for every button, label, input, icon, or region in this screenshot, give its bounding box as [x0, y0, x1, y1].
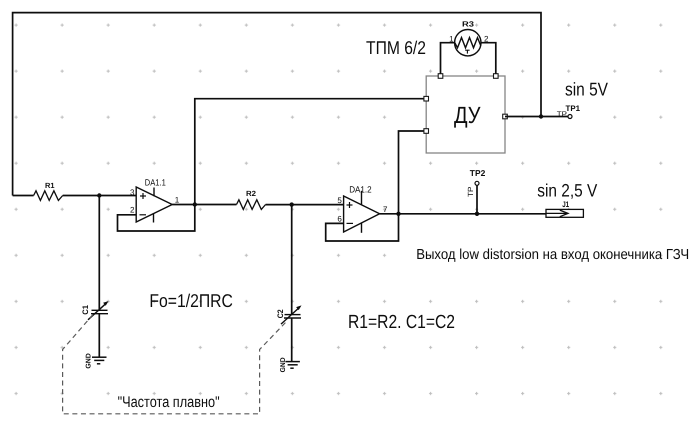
wire: DU output to TP1 [505, 116, 568, 118]
op-amp DA1.1 [136, 187, 172, 223]
junction node DA1.2 output [396, 212, 400, 216]
resistor R2 [237, 200, 266, 210]
ground GND at C2 [285, 362, 300, 369]
svg-text:sin 5V: sin 5V [565, 79, 609, 100]
wire: DA1.1 feedback loop to pin 2 [118, 205, 195, 232]
wire: C2 branch down [291, 205, 293, 315]
wire: R2 to DA1.2 pin 5 [266, 204, 344, 206]
svg-text:3: 3 [130, 188, 135, 197]
junction node DA1.1 output [193, 202, 197, 206]
junction node R2/C2 [290, 202, 294, 206]
junction node DU output / top loop [539, 114, 543, 118]
svg-text:7: 7 [383, 205, 388, 214]
test point TP1 [568, 115, 572, 119]
pin square DU top 2 [494, 74, 499, 79]
svg-text:DA1.2: DA1.2 [349, 184, 372, 194]
wire: R3 right lead [481, 43, 496, 74]
wire: DA1.2 output to J1 [380, 213, 546, 215]
block DU (differential amplifier) [426, 76, 505, 153]
wire: DA1.2 feedback loop to pin 6 [326, 214, 399, 241]
svg-text:DA1.1: DA1.1 [145, 177, 166, 187]
capacitor C2 (variable) [281, 305, 302, 324]
op-amp DA1.2 [344, 191, 380, 233]
resistor R1 [34, 191, 63, 201]
svg-text:ДУ: ДУ [454, 102, 481, 128]
wire: C1 branch down [98, 196, 100, 311]
connector J1 [546, 209, 583, 217]
wire: TP2 branch [476, 185, 478, 214]
svg-text:sin 2,5 V: sin 2,5 V [537, 181, 597, 201]
callout dashed box (frequency adjust group) [63, 315, 287, 414]
svg-text:C1: C1 [81, 304, 90, 314]
svg-text:TP1: TP1 [566, 104, 581, 113]
svg-text:1: 1 [175, 195, 180, 204]
svg-text:5: 5 [337, 196, 342, 205]
junction node R1/C1 [97, 193, 101, 197]
test point TP2 [475, 181, 479, 185]
svg-text:1: 1 [449, 35, 454, 44]
svg-text:6: 6 [337, 215, 342, 224]
wire: C1 to ground [98, 314, 100, 358]
svg-text:C2: C2 [276, 309, 285, 318]
junction node TP2 [475, 212, 479, 216]
svg-text:Выход low distorsion на вход о: Выход low distorsion на вход оконечника … [416, 247, 689, 263]
wire: DA1.1 output up to DU input 1 [195, 99, 426, 205]
svg-text:R1: R1 [45, 181, 55, 190]
svg-text:"Частота плавно": "Частота плавно" [118, 394, 220, 411]
svg-text:TP: TP [466, 187, 475, 198]
wire: R1 to DA1.1 pin 3 [63, 195, 137, 197]
svg-text:2: 2 [484, 35, 489, 44]
wire: outer loop from R1 left end up and across top down to DU output node [13, 13, 541, 196]
thermistor R3 [455, 30, 481, 56]
svg-text:TP2: TP2 [470, 168, 486, 178]
pin square DU left 2 [424, 129, 429, 134]
svg-text:Fo=1/2ПRC: Fo=1/2ПRC [149, 290, 233, 311]
wire: left stub to R1 [13, 195, 34, 197]
svg-text:GND: GND [85, 353, 92, 368]
pin square DU top 1 [438, 74, 443, 79]
svg-text:ТПМ 6/2: ТПМ 6/2 [366, 37, 426, 58]
ground GND at C1 [92, 357, 107, 364]
svg-text:2: 2 [130, 206, 135, 215]
svg-text:J1: J1 [562, 200, 569, 209]
wire: R3 left lead [441, 43, 455, 74]
wire: DU input 2 down to DA1.2 output node [399, 131, 427, 214]
capacitor C1 (variable) [88, 301, 109, 320]
pin square DU right [503, 114, 508, 119]
wire: DA1.1 output [172, 204, 236, 206]
svg-text:R2: R2 [246, 189, 256, 198]
wire: C2 to ground [291, 318, 293, 362]
svg-text:GND: GND [280, 357, 287, 372]
pin square DU left 1 [424, 96, 429, 101]
svg-text:R3: R3 [462, 20, 474, 29]
svg-text:R1=R2. C1=C2: R1=R2. C1=C2 [348, 312, 455, 333]
